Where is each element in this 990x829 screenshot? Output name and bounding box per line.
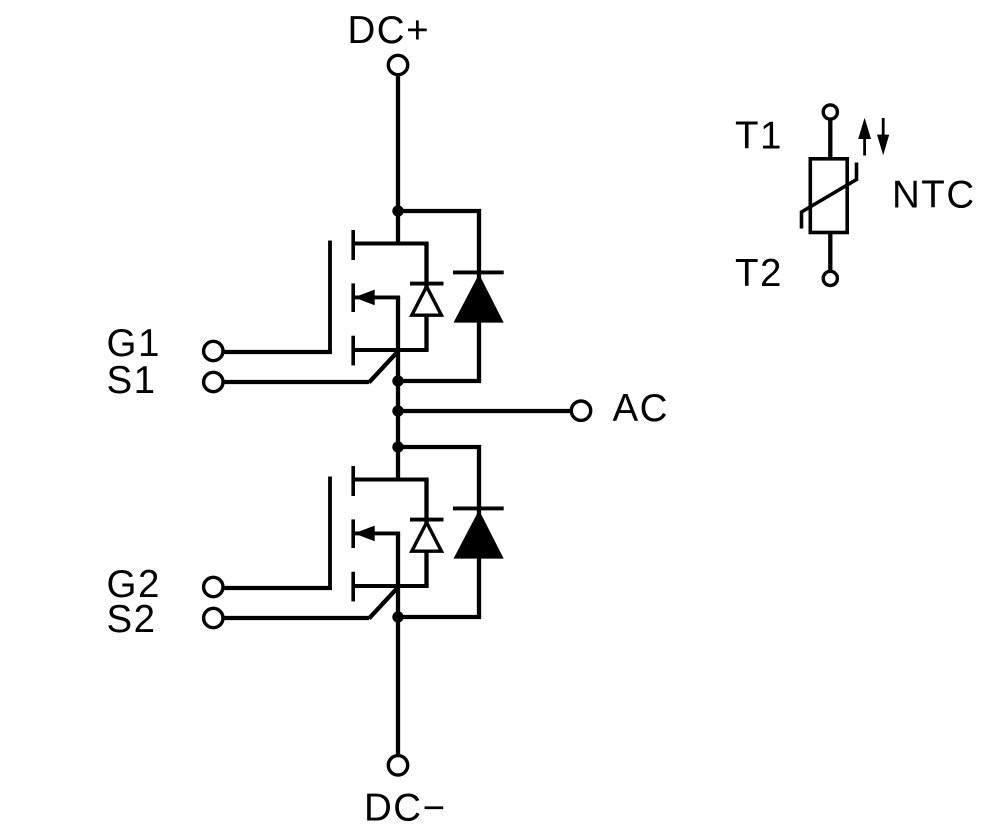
wire N1 to Q1 drain bar xyxy=(396,211,400,244)
terminal pad DC- xyxy=(388,756,407,775)
transistor Q1 body arrow xyxy=(353,290,400,306)
diode D3 (body diode, hollow) xyxy=(412,523,442,552)
terminal pad AC xyxy=(571,401,590,420)
wire N4 to Q2 drain bar xyxy=(396,447,400,480)
svg-text:S2: S2 xyxy=(107,598,157,641)
wire N5 to DC- xyxy=(396,617,400,756)
transistor Q2 gate line xyxy=(328,477,332,589)
diode D1 (body diode, hollow) xyxy=(412,287,442,316)
wire N5 to D4 anode xyxy=(398,615,481,619)
wire N2 to D2 anode xyxy=(398,379,481,383)
transistor Q1 gate line xyxy=(328,241,332,353)
svg-text:DC−: DC− xyxy=(364,787,447,829)
svg-text:AC: AC xyxy=(613,387,669,430)
wire Q2 source to node N5 xyxy=(396,586,400,617)
thermistor RT1 top pad xyxy=(823,105,837,119)
svg-text:DC+: DC+ xyxy=(348,9,431,52)
terminal pad DC+ xyxy=(388,55,407,74)
diode D3 cathode bar xyxy=(410,518,444,522)
diode D1 cathode bar xyxy=(410,282,444,286)
wire G1 lead xyxy=(225,350,333,354)
svg-text:NTC: NTC xyxy=(892,173,976,216)
diode D1 branch wire xyxy=(424,244,428,351)
wire T1 to RT1 body xyxy=(828,119,832,157)
diode D4 (solid freewheel diode) xyxy=(454,510,504,559)
thermistor RT1 bottom pad xyxy=(823,271,837,285)
transistor Q2 drain bar xyxy=(353,478,428,482)
wire S2 lead xyxy=(225,616,370,620)
transistor Q1 drain bar xyxy=(353,242,428,246)
transistor Q2 body arrow xyxy=(353,526,400,542)
arrow down xyxy=(877,118,889,155)
arrow up xyxy=(858,118,871,156)
transistor Q2 source bar xyxy=(353,584,428,588)
node N1 (Q1 drain / D2 cathode) xyxy=(392,205,403,216)
terminal pad S1 xyxy=(204,372,223,391)
wire N1 to D2 branch xyxy=(398,211,479,381)
wire S1 diagonal xyxy=(369,351,398,382)
wire G2 lead xyxy=(225,586,333,590)
diode D2 (solid freewheel diode) xyxy=(454,274,504,323)
node N5 (Q2 source / D4 anode) xyxy=(392,611,403,622)
node N4 (Q2 drain / D4 cathode) xyxy=(392,441,403,452)
transistor Q2 channel dashes xyxy=(351,466,355,601)
wire RT1 body to T2 xyxy=(828,234,832,271)
wire N2 to node N3 xyxy=(396,381,400,411)
wire AC lead xyxy=(398,409,571,413)
wire N3 to node N4 xyxy=(396,411,400,447)
svg-text:T1: T1 xyxy=(735,115,783,158)
wire DC+ to node N1 xyxy=(396,76,400,211)
transistor Q1 source bar xyxy=(353,348,428,352)
node N2 (Q1 source / D2 anode) xyxy=(392,375,403,386)
node N3 (AC output) xyxy=(392,405,403,416)
diode D3 branch wire xyxy=(424,480,428,587)
wire Q1 source to node N2 xyxy=(396,350,400,381)
diode D2 cathode bar xyxy=(453,270,504,274)
svg-text:S1: S1 xyxy=(107,359,157,402)
svg-text:T2: T2 xyxy=(735,252,783,295)
wire S1 lead xyxy=(225,380,370,384)
wire S2 diagonal xyxy=(369,587,398,618)
thermistor RT1 strike line xyxy=(802,163,857,229)
terminal pad G1 xyxy=(204,341,223,360)
thermistor RT1 body xyxy=(810,159,847,233)
diode D4 cathode bar xyxy=(453,506,504,510)
transistor Q2 source link xyxy=(396,533,400,586)
transistor Q1 channel dashes xyxy=(351,230,355,365)
transistor Q1 source link xyxy=(396,297,400,350)
terminal pad S2 xyxy=(204,608,223,627)
terminal pad G2 xyxy=(204,577,223,596)
wire N4 to D4 branch xyxy=(398,447,479,617)
